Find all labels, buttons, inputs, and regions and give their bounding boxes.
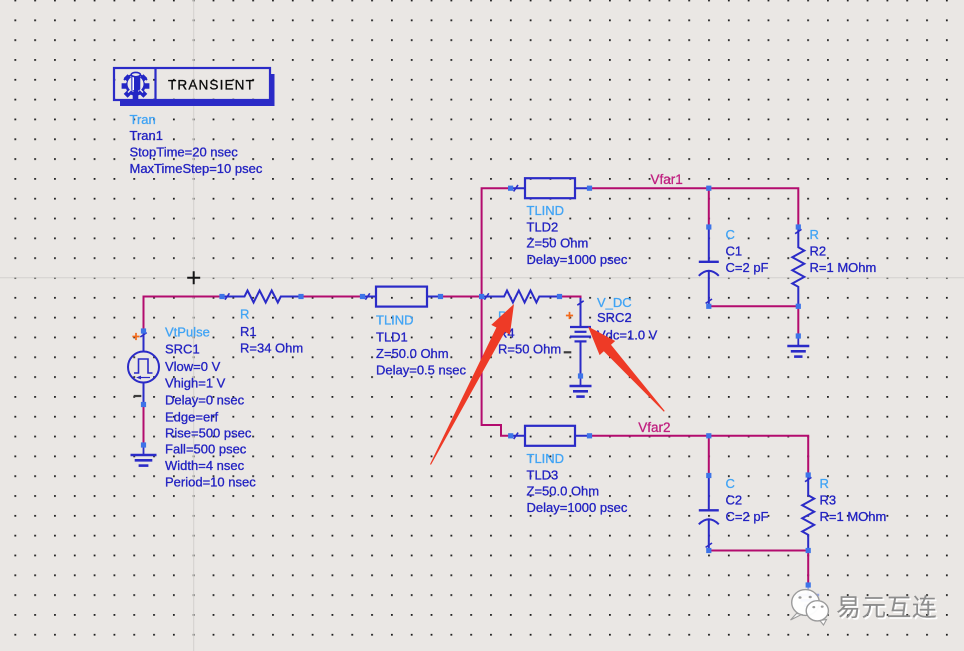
ground below R2 <box>797 336 799 346</box>
svg-text:Vfar2: Vfar2 <box>638 420 670 435</box>
terminal square R3 pin1 <box>806 472 811 477</box>
svg-text:Fall=500 psec: Fall=500 psec <box>165 442 247 457</box>
svg-text:Z=50 Ohm: Z=50 Ohm <box>527 236 589 251</box>
terminal square R1 pin1 <box>219 294 224 299</box>
wire: R3 bottom down to watermark area <box>807 551 809 586</box>
terminal square SRC1 pin- <box>141 402 146 407</box>
svg-text:TLIND: TLIND <box>376 313 414 328</box>
wire: C2 bottom to R3 bottom <box>709 550 808 552</box>
wire: R1 to TLD1 <box>301 296 363 298</box>
svg-text:C: C <box>726 227 735 242</box>
terminal square R3 ground terminal <box>806 582 811 587</box>
transmission line TLD2 <box>525 178 575 198</box>
wire: TLD3 to Vfar2 node and R3 <box>590 436 809 475</box>
SRC1 plus polarity <box>132 333 139 340</box>
svg-text:Z=50.0 Ohm: Z=50.0 Ohm <box>376 346 449 361</box>
red annotation arrow pointing at R4 <box>430 304 514 465</box>
svg-text:MaxTimeStep=10 psec: MaxTimeStep=10 psec <box>130 161 263 176</box>
svg-text:R: R <box>820 476 829 491</box>
terminal square TLD2 pin1 <box>508 186 513 191</box>
svg-text:R: R <box>810 227 819 242</box>
svg-text:Edge=erf: Edge=erf <box>165 410 219 425</box>
wire: center junction riser to TLD2 branch <box>482 188 511 296</box>
svg-text:V_DC: V_DC <box>597 295 632 310</box>
terminal square R4 pin2 <box>557 294 562 299</box>
transmission line TLD1 <box>376 287 427 307</box>
SRC2 plus polarity <box>566 312 573 319</box>
terminal square SRC1 pin+ <box>141 328 146 333</box>
TRANSIENT controller box shadow <box>120 74 275 106</box>
svg-text:R=34 Ohm: R=34 Ohm <box>240 340 303 355</box>
wire: TLD2 to Vfar1 node and R2 <box>590 188 799 227</box>
svg-text:R2: R2 <box>810 244 827 259</box>
SRC2 minus polarity <box>564 351 572 353</box>
svg-text:SRC2: SRC2 <box>597 310 632 325</box>
svg-text:C: C <box>726 476 735 491</box>
watermark WeChat small bubble <box>806 601 828 625</box>
svg-text:TLIND: TLIND <box>527 451 565 466</box>
terminal square TLD2 pin2 <box>587 186 592 191</box>
svg-text:R=1 MOhm: R=1 MOhm <box>810 260 877 275</box>
svg-text:Delay=1000 psec: Delay=1000 psec <box>527 500 628 515</box>
terminal square R1 pin2 <box>298 294 303 299</box>
ground below SRC2 <box>580 376 582 386</box>
terminal square R2 ground terminal <box>796 333 801 338</box>
svg-text:TLIND: TLIND <box>527 203 565 218</box>
svg-text:R1: R1 <box>240 324 257 339</box>
terminal square junction Vfar1 node <box>706 186 711 191</box>
DC source SRC2 (V_DC) <box>580 298 582 326</box>
ground below R3 (behind watermark) <box>807 585 809 595</box>
svg-text:Vlow=0 V: Vlow=0 V <box>165 359 221 374</box>
terminal square junction center node <box>479 294 484 299</box>
svg-text:Delay=0 nsec: Delay=0 nsec <box>165 393 245 408</box>
wire: center junction dropper to TLD3 branch <box>482 297 511 436</box>
wire: C1 bottom to R2 bottom <box>709 305 799 307</box>
svg-text:R3: R3 <box>820 492 837 507</box>
svg-text:Vhigh=1 V: Vhigh=1 V <box>165 376 226 391</box>
capacitor C2 <box>708 476 710 510</box>
resistor R4 <box>482 291 560 303</box>
wire: SRC1 to R1 <box>144 297 223 332</box>
svg-text:C=2 pF: C=2 pF <box>726 260 769 275</box>
origin crosshair marker <box>187 271 200 284</box>
svg-text:Width=4 nsec: Width=4 nsec <box>165 458 245 473</box>
ground below SRC1 <box>143 445 145 455</box>
svg-text:Z=50.0 Ohm: Z=50.0 Ohm <box>527 484 600 499</box>
svg-text:Period=10 nsec: Period=10 nsec <box>165 475 256 490</box>
wire: TLD1 to center junction <box>441 296 482 298</box>
terminal square TLD3 pin1 <box>508 433 513 438</box>
svg-text:C=2 pF: C=2 pF <box>726 509 769 524</box>
terminal square TLD1 pin2 <box>438 294 443 299</box>
svg-text:R: R <box>240 307 249 322</box>
svg-text:C2: C2 <box>726 492 743 507</box>
svg-text:TLD3: TLD3 <box>527 467 559 482</box>
transient gear icon <box>122 72 150 100</box>
svg-text:TRANSIENT: TRANSIENT <box>168 78 255 93</box>
svg-text:C1: C1 <box>726 244 743 259</box>
SRC1 minus polarity <box>134 395 142 397</box>
terminal square C1 pin1 <box>706 224 711 229</box>
svg-text:SRC1: SRC1 <box>165 342 200 357</box>
red annotation arrow pointing at SRC2 <box>588 327 665 412</box>
terminal square TLD3 pin2 <box>587 433 592 438</box>
capacitor C1 <box>708 227 710 261</box>
watermark text 易元互连 <box>837 595 938 620</box>
svg-text:Tran: Tran <box>130 112 156 127</box>
resistor R3 <box>802 475 814 551</box>
wire: SRC1 bottom to ground <box>143 405 145 446</box>
resistor R2 <box>792 227 804 306</box>
svg-text:TLD2: TLD2 <box>527 219 559 234</box>
svg-text:StopTime=20 nsec: StopTime=20 nsec <box>130 145 239 160</box>
pulse source SRC1 (VtPulse) <box>143 331 145 405</box>
terminal square R2 pin1 <box>796 224 801 229</box>
terminal square C1 pin2 <box>706 304 711 309</box>
transmission line TLD3 <box>525 426 575 446</box>
svg-text:TLD1: TLD1 <box>376 330 408 345</box>
svg-text:Tran1: Tran1 <box>130 128 163 143</box>
terminal square C2 pin1 <box>706 473 711 478</box>
terminal square SRC2 pin- <box>578 373 583 378</box>
svg-text:R=1 MOhm: R=1 MOhm <box>820 509 887 524</box>
page axis lines <box>193 0 195 651</box>
wire: R2 bottom to ground <box>797 306 799 336</box>
svg-text:R=50 Ohm: R=50 Ohm <box>498 342 561 357</box>
terminal square TLD1 pin1 <box>360 294 365 299</box>
svg-text:Delay=0.5 nsec: Delay=0.5 nsec <box>376 363 466 378</box>
resistor R1 <box>222 291 301 303</box>
svg-text:Rise=500 psec: Rise=500 psec <box>165 426 252 441</box>
terminal square C2 pin2 <box>706 548 711 553</box>
svg-text:VtPulse: VtPulse <box>165 325 210 340</box>
svg-text:Delay=1000 psec: Delay=1000 psec <box>527 252 628 267</box>
wire: Vfar2 node to C2 <box>708 436 710 476</box>
TRANSIENT controller box <box>114 68 270 100</box>
terminal square junction Vfar2 node <box>706 433 711 438</box>
wire: R4 to SRC2 <box>560 297 581 300</box>
svg-text:Vfar1: Vfar1 <box>651 172 683 187</box>
wire: Vfar1 node to C1 <box>708 188 710 227</box>
terminal square junction R2 bottom <box>796 304 801 309</box>
terminal square junction R3 bottom <box>806 548 811 553</box>
watermark WeChat big bubble <box>791 590 820 620</box>
terminal square SRC1 ground terminal <box>141 442 146 447</box>
